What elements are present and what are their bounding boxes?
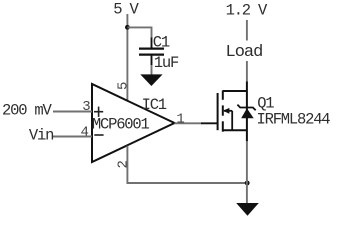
svg-text:4: 4 xyxy=(81,125,89,141)
transistor Q1 body diode triangle xyxy=(241,108,254,118)
transistor Q1 source connect xyxy=(223,129,247,131)
transistor Q1 gate lead xyxy=(201,122,218,124)
wire Vin to pin 4 xyxy=(53,136,92,138)
svg-text:1: 1 xyxy=(176,111,184,127)
op-amp U1 triangle body xyxy=(92,84,175,162)
transistor Q1 drain-source trunk xyxy=(246,82,248,142)
wire Load to Q1 drain xyxy=(246,61,248,82)
svg-text:Load: Load xyxy=(226,43,263,62)
ground symbol at C1 xyxy=(140,74,162,86)
op-amp plus input marker xyxy=(94,107,103,117)
transistor Q1 body arrow xyxy=(223,108,232,130)
svg-text:5: 5 xyxy=(116,82,132,90)
svg-text:5 V: 5 V xyxy=(113,1,139,19)
wire Q1 source to ground xyxy=(246,141,248,204)
svg-text:3: 3 xyxy=(82,99,90,115)
svg-text:1.2 V: 1.2 V xyxy=(226,2,268,20)
ground symbol at source node xyxy=(236,203,259,216)
transistor Q1 channel segments xyxy=(222,90,224,131)
junction dot 5V node xyxy=(125,25,130,30)
svg-text:MCP6001: MCP6001 xyxy=(92,115,150,133)
svg-text:2: 2 xyxy=(116,160,132,168)
op-amp minus input marker xyxy=(94,134,103,136)
transistor Q1 gate bar xyxy=(217,93,219,130)
svg-text:Vin: Vin xyxy=(29,127,53,145)
wire junction to capacitor C1 xyxy=(127,27,151,38)
svg-text:1uF: 1uF xyxy=(154,54,179,72)
transistor Q1 drain connect xyxy=(223,90,247,92)
wire op-amp pin 2 to bottom node xyxy=(127,146,246,183)
wire 200 mV to pin 3 xyxy=(53,111,92,113)
wire 1.2V to Load xyxy=(246,20,248,41)
capacitor C1 bottom lead xyxy=(151,56,153,66)
svg-text:IC1: IC1 xyxy=(142,96,167,114)
transistor Q1 body diode cathode bar xyxy=(237,105,255,111)
capacitor C1 top lead xyxy=(151,38,153,48)
svg-text:IRFML8244: IRFML8244 xyxy=(257,110,331,128)
capacitor C1 plates xyxy=(139,49,164,55)
svg-text:200 mV: 200 mV xyxy=(2,102,53,120)
junction dot bottom node xyxy=(245,181,250,186)
svg-text:C1: C1 xyxy=(153,34,170,52)
wire C1 to ground xyxy=(151,65,153,75)
wire op-amp output pin 1 to gate xyxy=(175,122,202,124)
wire 5V supply down to op-amp pin 5 xyxy=(126,14,128,101)
